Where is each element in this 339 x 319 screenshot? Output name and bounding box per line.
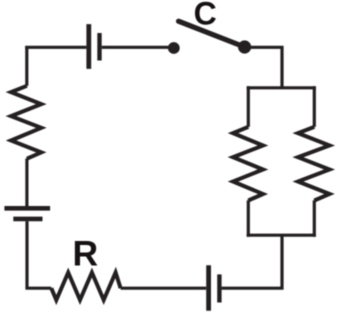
svg-text:C: C	[194, 0, 217, 32]
svg-text:R: R	[73, 233, 99, 273]
